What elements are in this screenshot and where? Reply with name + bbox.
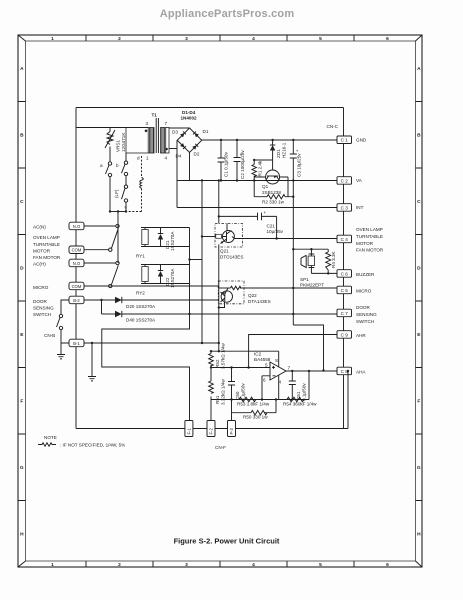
connector pin F-2 (207, 421, 215, 437)
opto transistor Q21 dashed box (215, 224, 243, 248)
svg-text:3.57kΩ 1/4w: 3.57kΩ 1/4w (221, 343, 226, 369)
wire Q21 base from bus (202, 236, 216, 238)
svg-text:R50 330 1w: R50 330 1w (243, 415, 268, 420)
wire F2 riser (210, 400, 212, 421)
switch b (122, 161, 128, 176)
svg-text:A: A (20, 66, 24, 72)
svg-text:INT: INT (356, 205, 364, 210)
wire bottom node (110, 211, 126, 213)
connector pin F-3 (228, 421, 236, 437)
Q22 base resistor (218, 287, 230, 289)
svg-text:F: F (20, 399, 23, 405)
diode D21 (158, 228, 163, 247)
svg-text:+: + (264, 210, 267, 215)
svg-text:D20 1SS270A: D20 1SS270A (126, 304, 156, 309)
connector pin C1 (337, 136, 352, 144)
svg-text:C: C (20, 199, 24, 205)
svg-text:R52: R52 (215, 359, 220, 368)
svg-text:B: B (20, 133, 24, 139)
svg-text:C 7: C 7 (341, 311, 349, 316)
relay RY1 contact (84, 224, 119, 251)
wire feedback line (211, 371, 309, 400)
wire relay feed bus (117, 226, 119, 263)
svg-text:HZ16-1: HZ16-1 (282, 142, 287, 158)
svg-text:C 2: C 2 (341, 178, 349, 183)
transistor Q22 (219, 288, 233, 308)
svg-text:AC(N): AC(N) (33, 225, 46, 230)
svg-text:DOOR: DOOR (33, 299, 47, 304)
svg-text:2: 2 (118, 562, 121, 568)
svg-text:3: 3 (185, 562, 188, 568)
wire AC top feed (76, 127, 148, 129)
svg-text:D1: D1 (203, 129, 209, 134)
resistor R4 (326, 249, 331, 274)
svg-text:C 6: C 6 (341, 271, 349, 276)
svg-text:N.O: N.O (73, 224, 81, 229)
wire C3 node vertical down to buzzer feed (292, 181, 294, 326)
resistor R1 (in left branch) (252, 165, 256, 177)
svg-text:AHR: AHR (356, 333, 366, 338)
svg-text:DOOR: DOOR (356, 305, 370, 310)
wire AHA to bottom rail riser (347, 371, 349, 429)
wire between switch b and c (125, 176, 127, 185)
svg-text:D: D (20, 266, 24, 272)
connector pin COM (oven lamp) (69, 246, 84, 254)
svg-text:E: E (20, 332, 24, 338)
wire ground stub (91, 343, 93, 376)
resistor R51 (209, 366, 214, 399)
svg-text:C 5: C 5 (341, 288, 349, 293)
wire Q21 collector / C4 line (243, 238, 337, 240)
svg-text:2SB1238: 2SB1238 (262, 190, 281, 195)
svg-text:C 3: C 3 (341, 205, 349, 210)
wire secondary pin4 to bridge (169, 148, 177, 150)
wire below switch c (125, 202, 127, 211)
resistor R54 (287, 397, 304, 402)
svg-text:CN-F: CN-F (215, 445, 226, 450)
resistor R53 (239, 397, 256, 402)
svg-text:1: 1 (146, 156, 149, 161)
svg-text:TURNTABLE: TURNTABLE (33, 242, 60, 247)
svg-text:R53 1.8kF 1/4w: R53 1.8kF 1/4w (237, 402, 270, 407)
svg-text:D2: D2 (194, 152, 200, 157)
svg-text:D3: D3 (172, 130, 178, 135)
wire B-2 down branch (101, 300, 103, 314)
svg-text:R4 3.3K: R4 3.3K (331, 250, 336, 268)
svg-text:SWITCH: SWITCH (33, 312, 51, 317)
svg-text:4: 4 (252, 562, 255, 568)
connector pin C2 (337, 177, 352, 185)
svg-text:BUZZER: BUZZER (356, 272, 375, 277)
svg-text:5: 5 (265, 363, 268, 368)
svg-text:COM: COM (72, 248, 82, 253)
wire F3 riser (231, 413, 233, 421)
svg-text:TURNTABLE: TURNTABLE (356, 234, 383, 239)
svg-text:1: 1 (51, 36, 54, 42)
bridge rectifier D1-D4 1N4002 (177, 128, 202, 208)
svg-text:+: + (296, 149, 299, 154)
svg-text:VRS1: VRS1 (116, 140, 121, 152)
wire pin4 stub (278, 375, 280, 399)
svg-text:C 1: C 1 (341, 138, 349, 143)
INT rail (177, 207, 337, 209)
svg-text:6: 6 (263, 378, 266, 383)
connector pin C3 (337, 204, 352, 212)
wire secondary pin7 to bridge (169, 127, 190, 129)
transformer T1 primary winding (126, 128, 154, 154)
svg-text:SP1: SP1 (300, 277, 309, 282)
svg-text:MICRO: MICRO (356, 289, 372, 294)
svg-text:d: d (137, 156, 140, 161)
svg-text:C 9: C 9 (341, 332, 349, 337)
svg-text:CN-B: CN-B (44, 333, 55, 338)
wire B-1 line (61, 342, 219, 344)
svg-text:8: 8 (275, 358, 278, 363)
svg-text:4: 4 (252, 36, 255, 42)
wire relay bus to vert bus (190, 259, 203, 261)
svg-text:DTA143ES: DTA143ES (248, 299, 271, 304)
svg-text:MOTOR: MOTOR (356, 241, 374, 246)
connector pin N.O (AC N) (69, 222, 84, 230)
svg-text:3: 3 (185, 36, 188, 42)
svg-text:C1 0.1µ/50v: C1 0.1µ/50v (224, 151, 229, 177)
svg-text:b: b (116, 163, 119, 168)
svg-text:Q22: Q22 (248, 293, 257, 298)
wire Q22 emitter junction (218, 306, 220, 308)
connector pin N.O (AC H) (69, 259, 84, 267)
diode D40 (102, 311, 122, 317)
wire primary bottom to switch b (125, 153, 127, 161)
svg-text:RY1: RY1 (136, 254, 145, 259)
wire buzzer feed line (293, 248, 328, 250)
svg-text:Q1: Q1 (262, 184, 269, 189)
wire C21 right to collector line (276, 216, 278, 238)
svg-text:10µ/35v: 10µ/35v (267, 229, 284, 234)
connector pin B-1 (69, 339, 84, 347)
svg-text:C: C (417, 199, 421, 205)
svg-text:1N4002: 1N4002 (181, 116, 198, 121)
border numbers top (51, 36, 389, 42)
connector pin B-2 (69, 296, 84, 304)
capacitor C50 (228, 366, 235, 400)
svg-text:5: 5 (319, 36, 322, 42)
varistor VRS1 (105, 128, 115, 163)
svg-text:: IF NOT SPECIFIED, 1/4W, 5%: : IF NOT SPECIFIED, 1/4W, 5% (60, 443, 125, 448)
wire relay drive Z-path (102, 314, 190, 421)
svg-text:G: G (417, 465, 421, 471)
switch a (106, 162, 112, 177)
svg-text:F-3: F-3 (229, 428, 234, 435)
GND rail (202, 139, 337, 141)
opto transistor Q22 dashed box (218, 281, 244, 304)
transistor Q1 (253, 159, 294, 199)
resistor R52 (209, 350, 214, 368)
wire Q22 collector to C5 (244, 287, 337, 289)
svg-text:NOTE: NOTE (44, 435, 57, 440)
svg-text:0.1µ/50v: 0.1µ/50v (302, 383, 307, 401)
capacitor C3 electrolytic (290, 139, 299, 182)
svg-text:VA: VA (356, 178, 363, 183)
svg-text:FAN MOTOR: FAN MOTOR (356, 248, 384, 253)
wire AHR line (249, 335, 337, 368)
connector pin C9 (337, 331, 352, 339)
svg-text:R54 360kF 1/4w: R54 360kF 1/4w (283, 402, 317, 407)
wire B-2 line (84, 299, 218, 301)
ground (center) (88, 377, 96, 381)
svg-text:N.O: N.O (73, 261, 81, 266)
zener ZD1 (270, 139, 275, 160)
svg-text:AppliancePartsPros.com: AppliancePartsPros.com (160, 8, 295, 20)
svg-text:OVEN LAMP: OVEN LAMP (33, 235, 60, 240)
resistor R50 (230, 398, 277, 415)
svg-text:A: A (417, 66, 421, 72)
svg-text:6: 6 (386, 562, 389, 568)
svg-text:PKM22EPT: PKM22EPT (300, 283, 324, 288)
svg-text:COM: COM (72, 284, 82, 289)
svg-text:MOTOR: MOTOR (33, 249, 51, 254)
svg-text:3: 3 (146, 121, 149, 126)
svg-text:T1: T1 (152, 113, 158, 118)
svg-text:BA4558: BA4558 (254, 357, 271, 362)
svg-text:IC2: IC2 (254, 352, 262, 357)
wire pin5 line (211, 367, 270, 369)
diode D20 (115, 297, 122, 303)
wire op-amp supply line (211, 351, 279, 367)
svg-text:SWITCH: SWITCH (356, 319, 374, 324)
svg-text:7: 7 (288, 366, 291, 371)
svg-text:GND: GND (356, 138, 367, 143)
wire relay right bus (189, 228, 191, 315)
svg-text:SENSING: SENSING (33, 306, 54, 311)
connector pin C5 (337, 286, 352, 294)
svg-text:DTO143ES: DTO143ES (220, 255, 243, 260)
svg-text:7: 7 (165, 121, 168, 126)
capacitor C21 (219, 210, 277, 224)
svg-text:B-1: B-1 (73, 341, 80, 346)
svg-text:ZD1: ZD1 (276, 149, 281, 158)
svg-text:E: E (417, 332, 421, 338)
svg-text:D4: D4 (176, 154, 182, 159)
VA rail (177, 180, 337, 182)
wire below switch a (109, 177, 111, 212)
diode D22 (158, 265, 163, 284)
border ticks right (416, 102, 423, 501)
svg-text:5: 5 (319, 562, 322, 568)
border frame outer (18, 35, 422, 567)
inductor dotted branch from pin d (141, 156, 143, 178)
wire ZD1 to R1 node (254, 159, 272, 161)
svg-text:F-2: F-2 (209, 428, 214, 435)
svg-text:H: H (20, 532, 24, 538)
border letters left (20, 66, 24, 538)
svg-text:B: B (417, 133, 421, 139)
svg-text:RY2: RY2 (136, 291, 145, 296)
capacitor C51 (289, 370, 296, 401)
wire pin6 feedback vertical (261, 376, 263, 400)
svg-text:OVEN LAMP: OVEN LAMP (356, 227, 383, 232)
svg-text:B-2: B-2 (73, 298, 80, 303)
transistor Q21 (216, 224, 243, 248)
svg-text:3.32kΩ 1/4w: 3.32kΩ 1/4w (221, 379, 226, 405)
border numbers bottom (51, 562, 389, 568)
wire MICRO line to Q22 (84, 286, 218, 288)
svg-text:C 4: C 4 (341, 237, 349, 242)
connector pin COM (micro) (69, 282, 84, 290)
buzzer SP1 (301, 249, 315, 273)
border frame inner (26, 41, 416, 561)
svg-text:H: H (417, 532, 421, 538)
wire buzzer line to C6 (311, 272, 337, 274)
wire D40 line to C7 (122, 313, 337, 315)
svg-text:MICRO: MICRO (33, 285, 49, 290)
svg-text:6: 6 (386, 36, 389, 42)
border corner diagonals (18, 35, 422, 567)
capacitor C1 (218, 139, 225, 182)
border ticks top (86, 35, 354, 41)
switch c (122, 185, 128, 202)
svg-text:1SS270A: 1SS270A (170, 231, 175, 251)
ground (left of B-1) (57, 355, 65, 359)
svg-text:1SS270A: 1SS270A (170, 268, 175, 288)
border ticks bottom (86, 561, 354, 567)
svg-text:12G471K: 12G471K (121, 132, 126, 152)
svg-text:4: 4 (165, 156, 168, 161)
transformer T1 core (156, 118, 158, 153)
wire Q22 output down to C8 Z-path (293, 325, 323, 371)
svg-text:D40 1SS270A: D40 1SS270A (126, 318, 156, 323)
connector pin C6 (337, 270, 352, 278)
wire relay feed (117, 212, 119, 227)
connector pin C7 (337, 309, 352, 317)
svg-text:a: a (100, 163, 103, 168)
svg-text:AC(H): AC(H) (33, 262, 46, 267)
border letters right (417, 66, 421, 538)
svg-text:Q21: Q21 (220, 249, 229, 254)
svg-text:(LF): (LF) (114, 189, 119, 198)
svg-text:CN-C: CN-C (327, 124, 339, 129)
svg-text:SENSING: SENSING (356, 312, 377, 317)
connector pin C8 (337, 367, 352, 375)
svg-text:1: 1 (51, 562, 54, 568)
svg-text:F: F (417, 399, 420, 405)
svg-text:C3 10µ/25v: C3 10µ/25v (297, 153, 302, 177)
door sensing switch symbol (57, 300, 70, 354)
svg-text:C51: C51 (296, 391, 301, 400)
transformer T1 secondary winding (161, 128, 170, 154)
svg-text:C21: C21 (267, 224, 276, 229)
capacitor C2 electrolytic (234, 139, 243, 182)
svg-text:2: 2 (118, 36, 121, 42)
svg-text:R1 2.4k: R1 2.4k (258, 160, 263, 177)
connector pin F-1 (185, 421, 193, 437)
svg-text:D1-D4: D1-D4 (182, 110, 196, 115)
svg-text:D: D (417, 266, 421, 272)
wire vcc bus upper (218, 181, 220, 217)
relay RY2 coil circuit (141, 265, 190, 284)
relay RY1 coil circuit (141, 228, 190, 247)
op-amp IC2 BA4558 (262, 362, 337, 380)
wire vcc bus lower (218, 248, 220, 352)
wire bridge bottom to VA rail (189, 153, 191, 181)
svg-text:F-1: F-1 (187, 428, 192, 435)
main circuit outline box (76, 108, 348, 429)
svg-text:AHA: AHA (356, 370, 366, 375)
svg-text:G: G (20, 465, 24, 471)
relay RY2 contact (84, 261, 119, 287)
svg-text:FAN MOTOR: FAN MOTOR (33, 255, 61, 260)
svg-text:C2 1000µ/25v: C2 1000µ/25v (240, 150, 245, 179)
svg-text:Figure S-2. Power Unit Circuit: Figure S-2. Power Unit Circuit (174, 537, 280, 546)
connector pin C4 (337, 235, 352, 243)
wire vertical bus (center) (201, 181, 203, 344)
svg-text:R2 330 1w: R2 330 1w (262, 200, 285, 205)
border ticks left (18, 102, 26, 501)
